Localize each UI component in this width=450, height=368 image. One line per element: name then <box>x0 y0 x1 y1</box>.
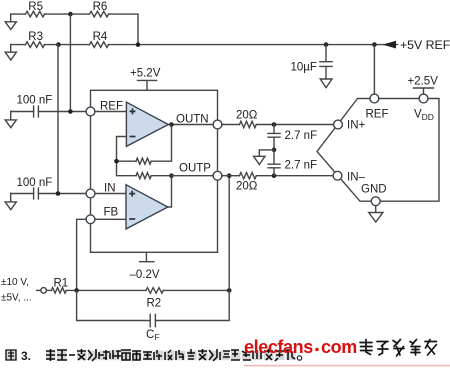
node 10uF-top <box>324 42 329 47</box>
ground mid-filter <box>254 150 274 165</box>
capacitor 10uF <box>320 45 332 79</box>
ground below GND <box>369 206 383 222</box>
resistor R1 <box>51 288 66 294</box>
ADC body <box>317 99 439 202</box>
wire R1 row <box>37 289 230 291</box>
terminal IN+ <box>334 120 343 129</box>
terminal OUTN <box>213 120 222 129</box>
wire row1 left segment <box>11 14 138 44</box>
resistor R2 <box>146 288 163 294</box>
svg-text:OUTN: OUTN <box>176 114 209 126</box>
terminal ADC REF <box>370 94 379 103</box>
node row1-junction <box>68 12 73 17</box>
wire REF circle to opamp <box>95 111 127 113</box>
op-amp U1a <box>126 102 168 146</box>
terminal OUTP <box>213 171 222 180</box>
node filter-top <box>272 122 277 127</box>
capacitor 2.7nF top <box>268 125 280 150</box>
ground G3 <box>5 112 16 128</box>
elecfans underline reflection <box>244 365 450 367</box>
wire OUTP to IN- <box>222 175 333 177</box>
resistor Rf2 <box>136 173 151 179</box>
terminal GND <box>371 197 380 206</box>
resistor Rf1 <box>136 158 151 164</box>
capacitor CF <box>150 314 155 326</box>
node fb-junction <box>114 159 119 164</box>
svg-text:20Ω: 20Ω <box>236 110 258 122</box>
capacitor C-100nF-1 <box>34 106 39 117</box>
svg-text:OUTP: OUTP <box>179 163 211 175</box>
vertical wire from R5R6 junction to REF row <box>69 14 71 111</box>
svg-text:R5: R5 <box>28 1 43 13</box>
svg-text:R2: R2 <box>147 298 162 310</box>
wire U1a output to OUTN <box>168 124 213 126</box>
svg-text:REF: REF <box>100 101 123 113</box>
capacitor C-100nF-2 <box>34 188 39 199</box>
wire IN circle to opamp <box>95 193 126 195</box>
svg-text:R3: R3 <box>28 31 43 43</box>
node IN-row-junction <box>56 191 61 196</box>
node REF-row-junction <box>68 109 73 114</box>
wire row2 <box>11 44 398 46</box>
terminal FB <box>86 215 95 224</box>
svg-text:R4: R4 <box>93 31 108 43</box>
wire FB external down to R1 node <box>77 219 87 290</box>
terminal VDD <box>419 94 428 103</box>
wire REF stub to ADC <box>373 45 375 94</box>
node filter-bottom <box>272 173 277 178</box>
svg-text:FB: FB <box>104 207 119 219</box>
svg-text:–0.2V: –0.2V <box>130 269 160 281</box>
wire IN row <box>11 193 87 195</box>
caption density overlay <box>6 351 296 361</box>
power +2.5V <box>414 88 434 94</box>
terminal REF <box>86 107 95 116</box>
svg-text:2.7 nF: 2.7 nF <box>285 130 318 142</box>
svg-text:10µF: 10µF <box>291 62 317 74</box>
svg-text:R6: R6 <box>93 1 108 13</box>
wire REF row <box>11 111 87 113</box>
caption figure 3 chinese text <box>6 350 16 360</box>
wire OUTN to IN+ <box>222 124 334 126</box>
node OUTP-junction <box>169 173 174 178</box>
power +5.2V <box>138 80 157 90</box>
resistor R4 <box>90 42 109 48</box>
ground below 10uF <box>320 79 332 88</box>
terminal IN <box>86 189 95 198</box>
op-amp U1b <box>126 185 168 229</box>
node OUTP-R2 junction <box>227 173 232 178</box>
node OUTN-junction <box>169 122 174 127</box>
svg-text:+5.2V: +5.2V <box>130 68 161 80</box>
arrow +5V REF <box>383 41 397 49</box>
ground G4 <box>5 194 16 210</box>
resistor R5 <box>26 11 45 17</box>
svg-text:+5V REF: +5V REF <box>400 38 450 52</box>
wire FB circle to opamp <box>95 218 126 220</box>
chinese brand text 电子发烧友 <box>360 340 437 357</box>
ground G2 <box>5 45 16 60</box>
caption period circle <box>297 356 301 360</box>
wire U1a minus feedback <box>117 125 172 176</box>
resistor R3 <box>26 42 45 48</box>
svg-text:IN: IN <box>104 183 116 195</box>
svg-text:±10 V,: ±10 V, <box>1 277 29 288</box>
svg-text:100 nF: 100 nF <box>17 177 53 189</box>
node R1-FB junction <box>74 288 79 293</box>
wire OUTP junction to circle <box>172 175 214 177</box>
svg-text:3.: 3. <box>21 349 31 363</box>
wire CF row <box>77 176 230 321</box>
terminal IN- <box>333 171 342 180</box>
node REF-stub-top <box>372 42 377 47</box>
resistor 20ohm top <box>240 121 257 127</box>
svg-text:+2.5V: +2.5V <box>408 76 439 88</box>
vertical wire from R3R4 junction to IN row <box>57 45 59 194</box>
ground G1 <box>5 14 16 30</box>
svg-text:IN+: IN+ <box>347 120 366 132</box>
svg-text:±5V, ...: ±5V, ... <box>1 293 32 304</box>
svg-text:GND: GND <box>361 184 387 196</box>
node filter-mid <box>272 148 277 153</box>
svg-text:R1: R1 <box>54 278 69 290</box>
wire U1b output up to OUTP <box>168 176 172 207</box>
node R3R4-junction <box>56 42 61 47</box>
amplifier box U1 <box>91 90 218 252</box>
resistor R6 <box>90 11 109 17</box>
node R6R4-junction <box>136 42 141 47</box>
svg-text:20Ω: 20Ω <box>236 181 258 193</box>
svg-text:REF: REF <box>366 109 389 121</box>
node R2-right junction <box>227 288 232 293</box>
svg-text:elecfans: elecfans <box>244 337 313 357</box>
terminal input circle <box>41 288 47 294</box>
capacitor 2.7nF bottom <box>268 150 280 176</box>
svg-text:com: com <box>321 337 357 357</box>
power -0.2V <box>140 252 154 261</box>
svg-text:IN–: IN– <box>347 172 366 184</box>
svg-text:2.7 nF: 2.7 nF <box>285 160 318 172</box>
resistor 20ohm bottom <box>240 173 257 179</box>
svg-text:100 nF: 100 nF <box>17 95 53 107</box>
